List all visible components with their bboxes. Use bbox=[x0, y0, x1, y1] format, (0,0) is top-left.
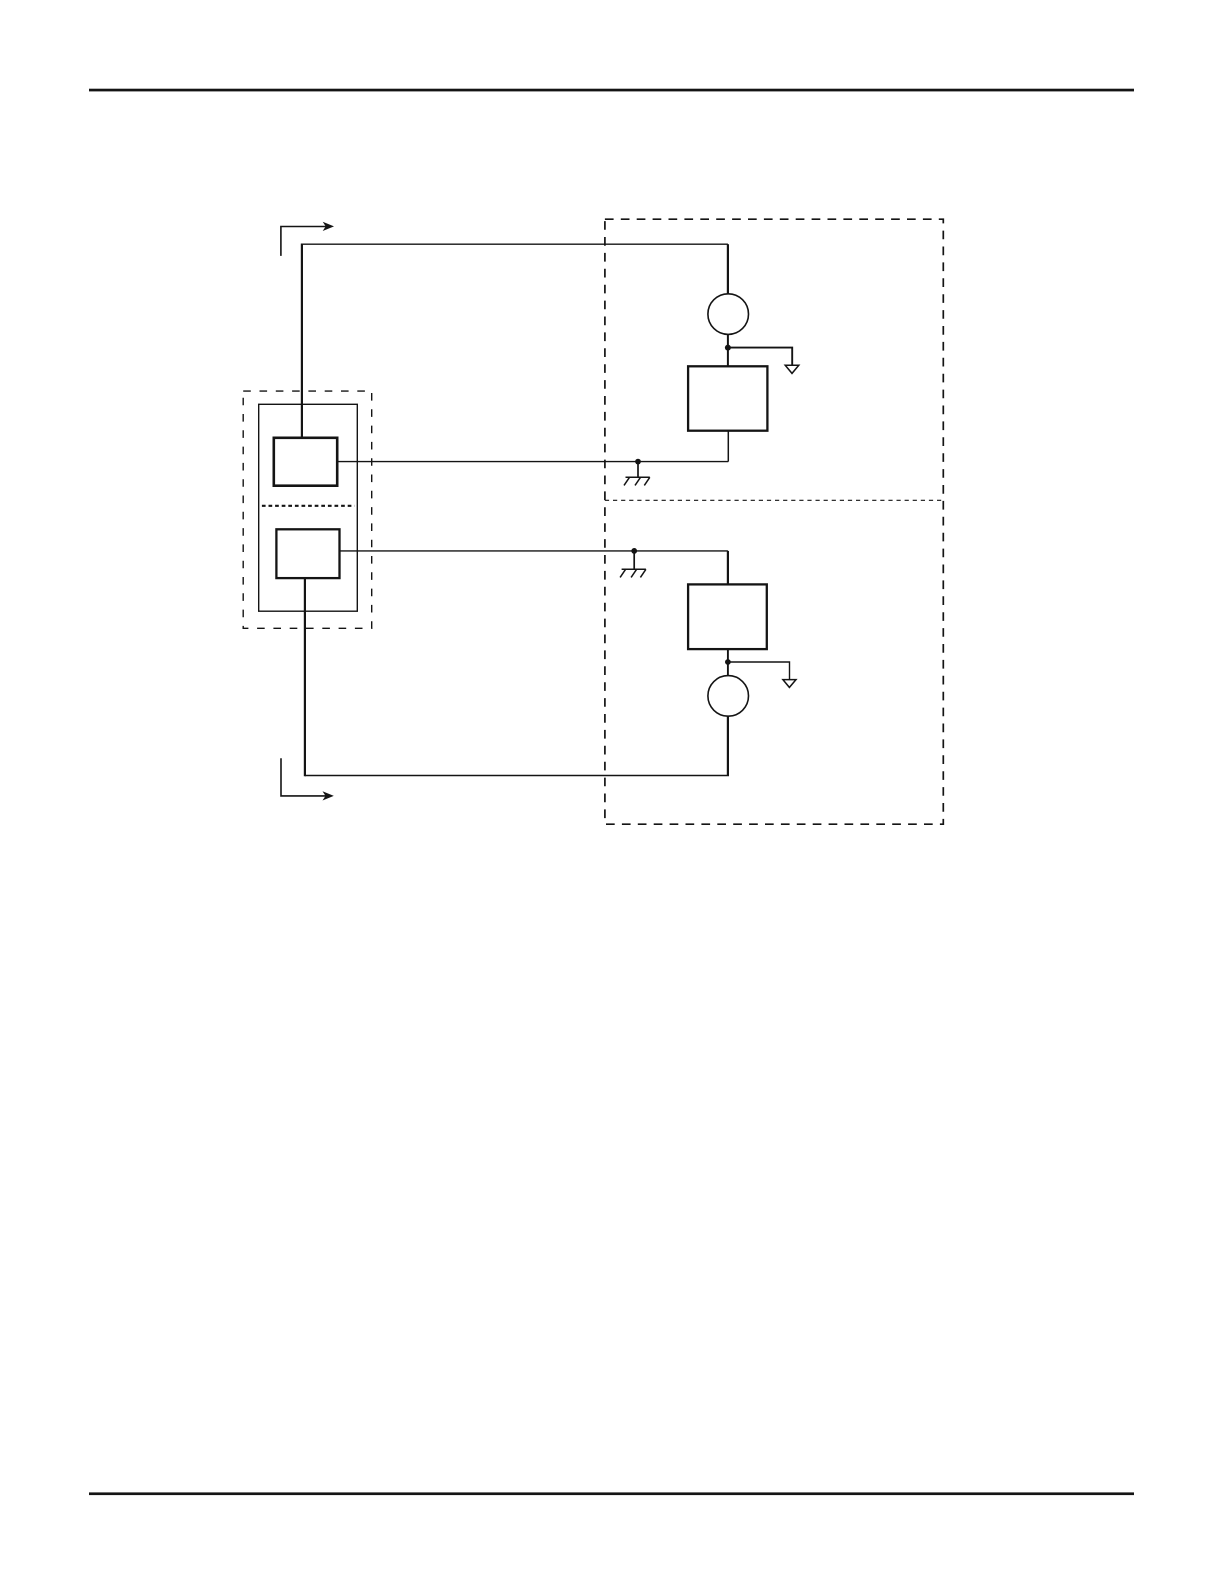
tester divider fine dashed bbox=[605, 499, 943, 501]
wire bottom bus bbox=[305, 775, 729, 777]
wire V1 to R1 bbox=[727, 334, 729, 366]
wire lower mid bus bbox=[340, 550, 728, 552]
wire R2 to V2 bbox=[727, 649, 729, 676]
pad box P1 bbox=[274, 438, 337, 486]
wire R1 bottom drop bbox=[727, 431, 729, 462]
junction node N1 bbox=[725, 345, 731, 351]
wire top trace horizontal bbox=[302, 243, 728, 245]
dotted divider bbox=[262, 505, 355, 507]
wire V2 down bbox=[727, 716, 729, 775]
source V1 bbox=[708, 294, 749, 335]
output arrow bottom bbox=[281, 758, 326, 796]
resistor block R2 bbox=[688, 584, 767, 649]
bottom rule bbox=[89, 1492, 1134, 1495]
wire bus to R2 bbox=[727, 551, 729, 585]
wire upper mid bus bbox=[337, 461, 728, 463]
top rule bbox=[89, 89, 1134, 92]
wire N1 to ground stub bbox=[728, 348, 792, 365]
input arrow top bbox=[281, 227, 326, 256]
resistor block R1 bbox=[688, 366, 767, 430]
package dashed box bbox=[243, 391, 372, 628]
ground triangle G4 bbox=[783, 680, 796, 688]
junction node N2 bbox=[635, 459, 641, 465]
tester dashed box bbox=[605, 219, 943, 824]
wire top trace vertical into P1 bbox=[301, 244, 303, 438]
input arrowhead top bbox=[323, 222, 334, 231]
die outline box bbox=[259, 404, 358, 611]
wire left bold vertical from P2 bbox=[304, 578, 306, 776]
chassis ground G3 bbox=[620, 551, 646, 578]
junction node N4 bbox=[725, 659, 731, 665]
junction node N3 bbox=[631, 548, 637, 554]
source V2 bbox=[708, 676, 749, 717]
pad box P2 bbox=[276, 529, 339, 578]
output arrowhead bottom bbox=[323, 791, 334, 800]
ground triangle G1 bbox=[785, 365, 799, 373]
wire tester drop to V1 bbox=[727, 244, 729, 294]
chassis ground G2 bbox=[624, 462, 650, 486]
wire N4 to ground stub bbox=[728, 662, 790, 679]
